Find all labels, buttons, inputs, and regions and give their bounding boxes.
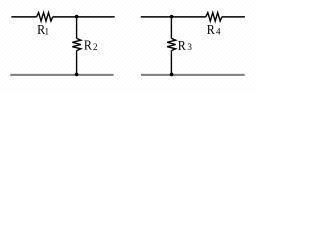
svg-text:R: R: [207, 22, 216, 37]
node junction dot top of left circuit: [75, 15, 79, 19]
resistor R4: [206, 13, 222, 22]
svg-text:4: 4: [216, 26, 221, 36]
svg-text:2: 2: [93, 42, 98, 52]
resistor R3: [167, 38, 176, 50]
resistor R2: [72, 38, 81, 50]
node junction dot bottom of left circuit: [75, 73, 79, 77]
wire bottom of right circuit: [141, 74, 245, 76]
wire top-right segment of right circuit: [222, 16, 245, 18]
svg-text:R: R: [84, 38, 93, 53]
wire top-left segment of left circuit: [11, 16, 36, 18]
wire vertical upper segment of right circuit: [170, 17, 172, 39]
resistor R1: [37, 13, 53, 22]
svg-text:R: R: [178, 38, 187, 53]
node junction dot top of right circuit: [170, 15, 174, 19]
svg-text:1: 1: [45, 26, 50, 36]
wire vertical lower segment of right circuit: [170, 51, 172, 75]
wire vertical upper segment of left circuit: [76, 17, 78, 39]
wire vertical lower segment of left circuit: [76, 51, 78, 75]
wire top-right segment of left circuit: [53, 16, 115, 18]
node junction dot bottom of right circuit: [170, 73, 174, 77]
wire top-left segment of right circuit: [141, 16, 206, 18]
wire bottom of left circuit: [10, 74, 113, 76]
svg-text:3: 3: [187, 42, 192, 52]
